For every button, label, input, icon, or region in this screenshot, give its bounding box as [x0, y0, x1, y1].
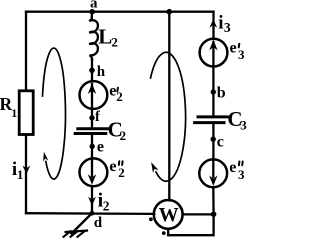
- wire C2 to e''2: [91, 135, 93, 159]
- wire right branch top: [212, 12, 214, 39]
- svg-text:3: 3: [224, 20, 231, 35]
- wire e''3 to junction: [212, 187, 215, 214]
- svg-text:d: d: [94, 215, 103, 231]
- wire e'2 to C2: [91, 109, 93, 128]
- svg-text:2: 2: [103, 198, 110, 213]
- svg-text:i: i: [218, 12, 223, 33]
- svg-text:e: e: [109, 158, 116, 175]
- arrowhead i2 down: [88, 197, 96, 206]
- node d: [90, 211, 95, 216]
- wire left lower: [25, 134, 27, 213]
- capacitor C3 plate bottom: [195, 121, 224, 124]
- source e''3 arrow shaft: [212, 161, 214, 177]
- node b: [211, 89, 216, 94]
- wire stub node a to coil: [91, 12, 93, 19]
- svg-text:e: e: [230, 40, 237, 57]
- svg-text:3: 3: [238, 47, 245, 62]
- svg-text:e: e: [97, 138, 104, 155]
- mesh arrow right ellipse: [151, 52, 186, 181]
- svg-text:3: 3: [240, 117, 247, 132]
- arrowhead e''2 down: [88, 174, 96, 185]
- source e'2 circle: [80, 81, 108, 109]
- inductor L2: [89, 19, 98, 60]
- resistor R1: [19, 91, 33, 135]
- node a: [90, 9, 95, 14]
- svg-text:3: 3: [238, 167, 245, 182]
- junction top of W wire: [167, 9, 173, 15]
- ground stem: [72, 213, 93, 233]
- wire coil to h: [91, 59, 93, 81]
- svg-text:2: 2: [118, 165, 125, 180]
- capacitor C3 plate top: [198, 115, 227, 118]
- wire e''2 to d: [91, 186, 93, 213]
- wire top: [26, 11, 214, 13]
- capacitor C2 plate bottom: [75, 132, 106, 135]
- wire W bottom stub: [167, 229, 169, 235]
- source e'2 arrow shaft: [91, 84, 93, 109]
- svg-text:2: 2: [111, 34, 118, 49]
- source e'3 arrow shaft: [212, 42, 214, 66]
- ground tick 2: [71, 231, 78, 237]
- arrowhead e'3 up: [209, 40, 217, 51]
- arrowhead i3 up: [209, 19, 217, 28]
- prime of e'3: [238, 44, 241, 48]
- source e''2 arrow shaft: [91, 160, 93, 177]
- ground tick 1: [64, 231, 71, 237]
- svg-text:1: 1: [17, 167, 24, 182]
- svg-text:W: W: [159, 204, 179, 226]
- source e'3 circle: [200, 39, 228, 67]
- node c: [211, 137, 216, 142]
- svg-text:h: h: [97, 64, 106, 80]
- wire bottom: [26, 212, 154, 215]
- svg-text:1: 1: [11, 106, 17, 120]
- wire vertical to wattmeter: [168, 12, 170, 201]
- wire W right: [183, 213, 214, 215]
- node h: [89, 68, 95, 74]
- source e''2 circle: [80, 158, 108, 186]
- wattmeter polarity dot bottom: [162, 231, 166, 235]
- svg-text:2: 2: [120, 128, 127, 143]
- ground bar: [66, 231, 87, 232]
- arrowhead mesh right: [151, 162, 159, 173]
- svg-text:L: L: [98, 25, 112, 49]
- arrowhead i1 down: [23, 166, 31, 175]
- svg-text:e: e: [109, 83, 116, 100]
- svg-text:e: e: [229, 159, 236, 176]
- svg-text:b: b: [217, 85, 226, 102]
- ground tick 3: [78, 231, 85, 237]
- node f: [89, 115, 94, 120]
- svg-text:c: c: [217, 133, 224, 150]
- wattmeter W circle: [154, 200, 183, 229]
- wattmeter polarity dot left: [149, 217, 153, 221]
- wire e'3 to C3: [212, 66, 214, 115]
- junction bottom right: [211, 211, 217, 217]
- arrowhead mesh left: [43, 152, 48, 162]
- arrowhead e''3 down: [209, 175, 217, 186]
- double prime of e''3: [238, 162, 241, 166]
- source e''3 circle: [199, 159, 227, 187]
- capacitor C2 plate top: [78, 127, 109, 130]
- node e: [90, 144, 95, 149]
- double prime of e''2: [118, 161, 121, 165]
- wire bottom voltage loop: [168, 214, 213, 235]
- wire C3 to e''3: [212, 124, 214, 159]
- wire left upper: [25, 12, 27, 91]
- prime of e'2: [116, 88, 119, 92]
- mesh arrow left ellipse: [43, 48, 66, 179]
- svg-text:f: f: [95, 109, 100, 125]
- svg-text:a: a: [90, 0, 98, 12]
- arrowhead e'2 up: [88, 83, 96, 94]
